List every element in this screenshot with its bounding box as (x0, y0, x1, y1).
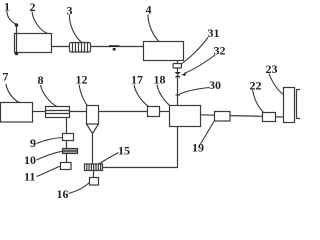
svg-text:15: 15 (118, 144, 130, 158)
svg-text:10: 10 (24, 153, 36, 167)
svg-text:9: 9 (30, 136, 36, 150)
svg-text:30: 30 (209, 78, 221, 92)
svg-text:23: 23 (266, 62, 278, 76)
svg-text:8: 8 (38, 73, 44, 87)
svg-text:7: 7 (3, 70, 9, 84)
svg-text:3: 3 (67, 4, 73, 18)
svg-text:4: 4 (146, 3, 152, 17)
svg-text:32: 32 (214, 44, 226, 58)
svg-text:11: 11 (24, 170, 35, 184)
svg-text:22: 22 (250, 79, 262, 93)
svg-text:19: 19 (192, 141, 204, 155)
svg-text:12: 12 (76, 73, 88, 87)
svg-text:17: 17 (131, 73, 143, 87)
svg-text:18: 18 (154, 73, 166, 87)
svg-text:1: 1 (4, 0, 10, 14)
svg-text:2: 2 (30, 0, 36, 14)
svg-text:31: 31 (208, 26, 220, 40)
svg-text:16: 16 (57, 187, 69, 200)
